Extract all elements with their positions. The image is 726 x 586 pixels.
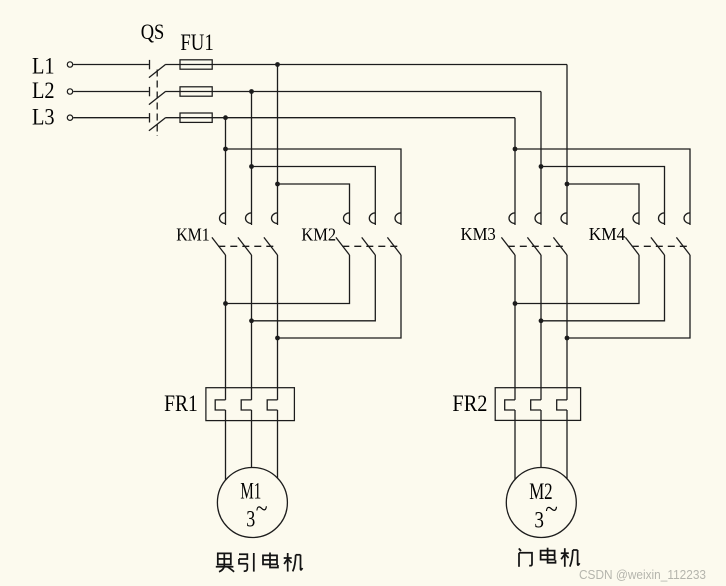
node merge KM1/KM2 p3 (275, 336, 280, 341)
wire tap to KM2 p1 (278, 184, 350, 225)
overload relay FR2 heater element 2 (531, 400, 541, 410)
contactor KM2 main contact pole 1 (336, 213, 350, 255)
switch QS pole L1 (149, 60, 166, 78)
wire FR1 to M1 lead L2 (251, 410, 253, 468)
overload relay FR2 heater element 1 (505, 400, 515, 410)
contactor KM4 main contact pole 3 (676, 213, 690, 255)
label KM3 (461, 224, 496, 244)
contactor KM1 linkage (218, 245, 275, 247)
wire FR2 to M2 lead L2 (540, 410, 542, 468)
wire L3 bus (166, 117, 515, 119)
svg-text:QS: QS (141, 19, 165, 44)
contactor KM1 main contact pole 3 (264, 213, 278, 255)
label KM4 (589, 224, 626, 244)
overload relay FR1 box (206, 388, 295, 421)
svg-text:KM4: KM4 (589, 224, 626, 244)
label KM1 (176, 225, 210, 245)
wire L3 source to QS (73, 117, 149, 119)
wire L1 source to QS (73, 64, 149, 66)
node L2 tap for KM1 (249, 89, 254, 94)
contactor KM1 main contact pole 2 (238, 213, 252, 255)
contactor KM3 linkage (508, 245, 565, 247)
label FR2 (452, 391, 487, 417)
wire FR2 to M2 lead L3 (514, 410, 516, 479)
switch QS pole L3 (149, 113, 166, 131)
label caption M2 (door motor) (519, 548, 580, 567)
fuse FU1 pole L2 (180, 87, 212, 96)
node merge KM3/KM4 p3 (565, 336, 570, 341)
overload relay FR1 heater element 1 (215, 400, 225, 410)
wire L1 drop to KM3 (566, 65, 568, 226)
label KM2 (301, 225, 336, 245)
svg-text:FR2: FR2 (452, 391, 487, 417)
wire KM2 p1 output merge (226, 255, 350, 304)
watermark (579, 567, 706, 582)
wire FR1 to M1 lead L3 (225, 410, 227, 480)
svg-text:3: 3 (534, 508, 544, 533)
node merge KM3/KM4 p1 (513, 301, 518, 306)
svg-text:KM1: KM1 (176, 225, 210, 245)
terminal L3 (67, 115, 72, 120)
node tap L2 to KM4 p2 (539, 164, 544, 169)
wire tap to KM2 p2 (252, 167, 376, 226)
contactor KM3 main contact pole 3 (553, 213, 567, 255)
wire L2 bus (166, 91, 541, 93)
label L1 (32, 53, 55, 78)
label QS (141, 19, 165, 44)
wire KM4 p1 output merge (515, 255, 639, 304)
wire L2 drop to KM3 (540, 92, 542, 226)
wire KM4 p2 output merge (541, 255, 665, 321)
wire L1 drop to KM1 (277, 65, 279, 226)
fuse FU1 pole L1 (180, 60, 212, 69)
node tap L3 to KM2 p3 (223, 147, 228, 152)
terminal L1 (67, 62, 72, 67)
wire KM1 L1 output to FR (277, 255, 279, 400)
svg-text:FU1: FU1 (180, 30, 213, 55)
node merge KM1/KM2 p2 (249, 318, 254, 323)
motor M2 circle (506, 468, 576, 538)
wire KM1 L2 output to FR (251, 255, 253, 400)
wire KM3 L1 output to FR (566, 255, 568, 400)
wire KM2 p3 output merge (278, 255, 402, 338)
wire KM3 L2 output to FR (540, 255, 542, 400)
label L2 (32, 78, 55, 103)
label M2 (529, 479, 552, 504)
switch QS linkage (156, 70, 158, 137)
node merge KM1/KM2 p1 (223, 301, 228, 306)
label L3 (32, 105, 55, 130)
wire L1 bus (166, 64, 567, 66)
overload relay FR1 heater element 3 (267, 400, 277, 410)
wire KM1 L3 output to FR (225, 255, 227, 400)
wire tap to KM2 p3 (226, 149, 402, 225)
contactor KM1 main contact pole 1 (212, 213, 226, 255)
node tap L1 to KM2 p1 (275, 182, 280, 187)
svg-text:KM2: KM2 (301, 225, 336, 245)
overload relay FR2 heater element 3 (557, 400, 567, 410)
node tap L1 to KM4 p1 (565, 182, 570, 187)
label M1 3~ (246, 495, 267, 531)
svg-text:L2: L2 (32, 78, 55, 103)
svg-text:~: ~ (545, 496, 558, 523)
contactor KM4 main contact pole 2 (651, 213, 665, 255)
svg-text:KM3: KM3 (461, 224, 496, 244)
wire L3 drop to KM3 (514, 118, 516, 225)
wire KM2 p2 output merge (252, 255, 376, 321)
switch QS pole L2 (149, 87, 166, 105)
wire FR1 to M1 lead L1 (277, 410, 279, 478)
label caption M1 (traction motor) (216, 553, 303, 572)
node tap L3 to KM4 p3 (513, 147, 518, 152)
svg-text:L1: L1 (32, 53, 55, 78)
wire KM4 p3 output merge (567, 255, 690, 338)
svg-text:CSDN @weixin_112233: CSDN @weixin_112233 (579, 567, 706, 582)
wire tap to KM4 p1 (567, 184, 639, 225)
wire tap to KM4 p3 (515, 149, 690, 225)
contactor KM4 main contact pole 1 (625, 213, 639, 255)
svg-text:FR1: FR1 (164, 391, 198, 417)
contactor KM2 main contact pole 2 (362, 213, 376, 255)
svg-text:L3: L3 (32, 105, 55, 130)
wire FR2 to M2 lead L1 (566, 410, 568, 479)
node L3 tap for KM1 (223, 115, 228, 120)
wire KM3 L3 output to FR (514, 255, 516, 400)
contactor KM2 linkage (342, 245, 398, 247)
node merge KM3/KM4 p2 (539, 318, 544, 323)
motor M1 circle (217, 468, 287, 538)
contactor KM3 main contact pole 1 (501, 213, 515, 255)
fuse FU1 pole L3 (180, 113, 212, 122)
terminal L2 (67, 89, 72, 94)
contactor KM2 main contact pole 3 (387, 213, 401, 255)
label M2 3~ (534, 496, 557, 533)
node tap L2 to KM2 p2 (249, 164, 254, 169)
label M1 (240, 479, 261, 504)
overload relay FR2 box (495, 388, 580, 421)
svg-text:~: ~ (256, 495, 268, 522)
wire L3 drop to KM1 (225, 118, 227, 225)
node L1 tap for KM1 (275, 62, 280, 67)
wire L2 drop to KM1 (251, 92, 253, 226)
wire tap to KM4 p2 (541, 167, 665, 226)
label FU1 (180, 30, 213, 55)
label FR1 (164, 391, 198, 417)
overload relay FR1 heater element 2 (241, 400, 251, 410)
contactor KM3 main contact pole 2 (527, 213, 541, 255)
wire L2 source to QS (73, 91, 149, 93)
contactor KM4 linkage (632, 245, 688, 247)
svg-text:3: 3 (246, 507, 255, 532)
